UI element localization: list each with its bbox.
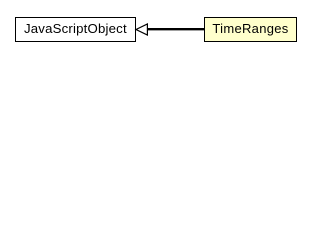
svg-text:JavaScriptObject: JavaScriptObject <box>24 21 127 36</box>
svg-text:TimeRanges: TimeRanges <box>212 21 288 36</box>
